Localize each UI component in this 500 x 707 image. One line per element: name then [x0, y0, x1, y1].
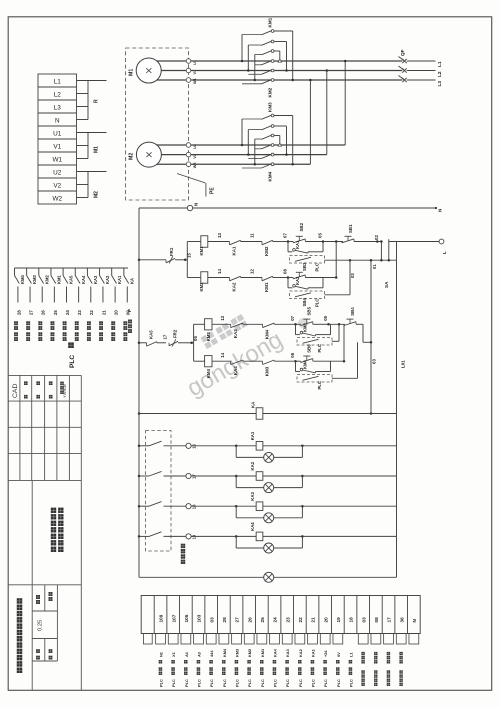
wire bottom return [139, 576, 397, 578]
svg-text:M1: M1 [94, 146, 100, 153]
wire right rail L01 [397, 242, 406, 578]
wire cable group R [77, 81, 107, 120]
circuit breaker QF [399, 49, 436, 82]
wire box2 output [325, 259, 355, 295]
svg-text:0V: 0V [336, 652, 341, 657]
svg-text:KM1: KM1 [199, 246, 204, 256]
svg-text:109: 109 [159, 614, 164, 622]
title block middle section [8, 480, 81, 690]
motor M1 [129, 58, 162, 83]
PLC interlock box 1 [290, 256, 325, 272]
svg-text:12: 12 [250, 269, 255, 274]
svg-text:PLC: PLC [311, 679, 316, 687]
svg-text:N: N [55, 117, 60, 124]
svg-text:KM2: KM2 [247, 648, 252, 657]
thermal relay FR2 contact [169, 329, 192, 346]
machine dashed enclosure [126, 48, 189, 200]
svg-text:V2: V2 [53, 182, 61, 189]
svg-text:20: 20 [323, 617, 328, 623]
wire phase lines motor1 to QF [191, 61, 402, 80]
svg-text:26: 26 [41, 310, 46, 315]
node 05c [323, 315, 330, 325]
signal name label [26, 321, 30, 341]
terminal block XT1 [38, 74, 77, 204]
svg-text:KA3: KA3 [285, 648, 290, 657]
svg-text:36: 36 [399, 617, 404, 623]
signal name label [99, 321, 103, 341]
svg-text:KA5: KA5 [149, 330, 154, 339]
svg-text:KA4: KA4 [81, 275, 86, 284]
svg-text:05: 05 [323, 315, 328, 320]
coil KM2 / contacts KA2 KM1 branch [187, 269, 289, 292]
coil KM1 / contacts KA1 KM2 branch [187, 233, 289, 256]
switch S2 [138, 471, 186, 477]
svg-text:107: 107 [171, 614, 176, 622]
svg-text:SB4: SB4 [350, 307, 355, 316]
lamp HL1 [236, 446, 302, 463]
company name [17, 598, 23, 673]
selector switch SA [372, 235, 390, 288]
svg-text:07: 07 [283, 233, 288, 238]
svg-text:444: 444 [209, 650, 214, 657]
svg-text:03: 03 [372, 359, 377, 364]
svg-text:11: 11 [250, 233, 255, 238]
switch S4 [138, 532, 186, 538]
node 00 [126, 310, 131, 315]
svg-text:KA2: KA2 [232, 282, 237, 291]
svg-text:PLC: PLC [209, 679, 214, 687]
PLC input contact KA4 [75, 268, 86, 303]
svg-text:W1: W1 [52, 156, 62, 163]
node 25 [53, 310, 58, 315]
svg-text:FR1: FR1 [169, 247, 174, 256]
pushbutton SB3 [288, 272, 336, 279]
svg-text:PLC: PLC [317, 344, 322, 352]
svg-text:02: 02 [374, 235, 379, 240]
signal name label [14, 321, 18, 341]
motor M2 [129, 142, 162, 167]
PLC input contact KM1 [51, 268, 62, 303]
relay coil KA4 [191, 522, 396, 541]
pushbutton SB2 [288, 222, 323, 243]
terminal strip stubs and output labels [143, 634, 418, 688]
signal name label [111, 321, 115, 341]
svg-text:25: 25 [53, 310, 58, 315]
svg-text:KM3: KM3 [32, 274, 37, 284]
contact KM3 parallel [296, 322, 331, 336]
svg-text:KM4: KM4 [222, 648, 227, 657]
title block lower cells [32, 585, 57, 661]
svg-text:28: 28 [222, 617, 227, 623]
PLC interlock box 2 [290, 291, 325, 307]
svg-text:PLC: PLC [298, 679, 303, 687]
svg-text:KA2: KA2 [298, 648, 303, 657]
svg-text:PLC: PLC [222, 679, 227, 687]
svg-text:13: 13 [220, 315, 225, 320]
svg-text:0.25: 0.25 [38, 620, 44, 631]
signal name label [75, 321, 79, 341]
wire top line to SB1 [323, 240, 343, 243]
svg-text:22: 22 [89, 310, 94, 315]
svg-text:KM3: KM3 [265, 366, 270, 376]
terminal strip XT2 [141, 596, 420, 634]
relay coil KA [138, 401, 397, 419]
svg-text:PLC: PLC [184, 679, 189, 687]
svg-text:KM2: KM2 [268, 87, 273, 97]
contact KA1 parallel [288, 240, 323, 253]
node 22 [89, 310, 94, 315]
svg-text:L1: L1 [437, 61, 443, 67]
signal name label [38, 321, 42, 341]
svg-text:FR2: FR2 [173, 329, 178, 338]
svg-text:PLC: PLC [197, 679, 202, 687]
svg-text:KA2: KA2 [250, 461, 255, 470]
svg-text:SB4: SB4 [302, 298, 307, 307]
pushbutton SB4 [344, 307, 363, 326]
svg-text:20: 20 [114, 310, 119, 315]
svg-text:+24: +24 [323, 650, 328, 657]
PE bonding switch [177, 174, 216, 197]
svg-text:SA: SA [384, 281, 389, 288]
svg-text:14: 14 [217, 269, 222, 274]
svg-text:01: 01 [372, 264, 377, 269]
PLC input contact KM3 [27, 268, 38, 303]
svg-text:KA3: KA3 [93, 275, 98, 284]
svg-text:KM1: KM1 [268, 17, 273, 27]
switch S3 [138, 502, 186, 508]
svg-text:M2: M2 [129, 153, 135, 160]
svg-text:26: 26 [247, 617, 252, 623]
svg-text:07: 07 [290, 315, 295, 320]
svg-text:24: 24 [65, 310, 70, 315]
svg-text:KA4: KA4 [250, 522, 255, 531]
node 27 [28, 310, 33, 315]
svg-text:KA1: KA1 [311, 648, 316, 657]
svg-text:PLC: PLC [349, 679, 354, 687]
svg-text:PLC: PLC [171, 679, 176, 687]
node 26 [41, 310, 46, 315]
switch S1 [138, 441, 186, 447]
svg-text:KM4: KM4 [265, 329, 270, 339]
svg-text:25: 25 [260, 617, 265, 623]
node P [127, 309, 132, 333]
node 05 [318, 233, 325, 243]
svg-text:PLC: PLC [69, 355, 76, 368]
svg-text:SB6: SB6 [307, 344, 312, 353]
svg-text:KM1: KM1 [260, 648, 265, 657]
PLC interlock box 4 [297, 375, 332, 390]
lamp HL4 [236, 536, 302, 553]
svg-text:U2: U2 [53, 169, 62, 176]
svg-text:A1: A1 [184, 651, 189, 657]
svg-text:03: 03 [361, 617, 366, 623]
svg-text:KM3: KM3 [268, 102, 273, 112]
label PLC input [68, 342, 76, 368]
svg-text:V1: V1 [53, 143, 61, 150]
wire branch split lower [192, 324, 194, 361]
svg-text:PLC: PLC [323, 679, 328, 687]
svg-text:L: L [442, 251, 447, 254]
svg-text:08: 08 [283, 269, 288, 274]
svg-text:08: 08 [374, 617, 379, 623]
wire cable group M2 [77, 172, 107, 199]
node 21 [101, 310, 106, 315]
svg-text:L3: L3 [54, 104, 62, 111]
svg-text:21: 21 [101, 310, 106, 315]
wire risers joining motor2 lines to phases [309, 60, 346, 164]
terminal 16 [186, 443, 197, 449]
svg-text:L01: L01 [401, 360, 406, 368]
svg-text:PLC: PLC [285, 679, 290, 687]
wire box4 output [332, 342, 358, 378]
svg-text:PLC: PLC [273, 679, 278, 687]
wire cable group M1 [77, 133, 107, 159]
svg-text:PLC: PLC [317, 381, 322, 389]
wire line2 [325, 259, 397, 261]
PLC input header wire [15, 267, 129, 269]
svg-text:03: 03 [350, 273, 355, 278]
svg-text:L2: L2 [54, 91, 62, 98]
node 20 [114, 310, 119, 315]
svg-text:W1: W1 [193, 78, 197, 84]
node 05b [190, 336, 197, 344]
svg-text:R: R [94, 99, 100, 103]
contactor KM3 contacts [241, 102, 294, 182]
svg-text:PLC: PLC [247, 679, 252, 687]
relay coil KA3 [191, 491, 396, 510]
svg-text:M1: M1 [129, 69, 135, 76]
svg-text:23: 23 [285, 617, 290, 623]
thermal relay FR1 contact [138, 247, 185, 263]
PLC input contact KM4 [15, 268, 26, 303]
node 24 [65, 310, 70, 315]
svg-text:KM4: KM4 [206, 369, 211, 379]
svg-text:L3: L3 [437, 81, 443, 87]
relay coil KA2 [191, 461, 396, 480]
svg-text:A3: A3 [197, 651, 202, 657]
svg-text:PLC: PLC [260, 679, 265, 687]
svg-text:17: 17 [163, 334, 168, 339]
svg-text:KA2: KA2 [295, 276, 300, 285]
signal name label [87, 321, 91, 341]
contact KM4 parallel [296, 359, 331, 372]
svg-text:21: 21 [311, 617, 316, 623]
terminal L [389, 239, 447, 254]
svg-text:03: 03 [209, 617, 214, 623]
svg-text:KA2: KA2 [105, 275, 110, 284]
pushbutton SB6 [296, 344, 345, 363]
pushbutton SB1 [342, 224, 381, 243]
lamp HL5 [264, 572, 274, 582]
svg-text:19: 19 [336, 617, 341, 623]
PLC input contact KA1 [112, 268, 123, 303]
contact KA2 parallel [288, 276, 323, 289]
svg-text:KM3: KM3 [235, 648, 240, 657]
svg-text:PLC: PLC [336, 679, 341, 687]
lamp HL3 [236, 506, 302, 523]
svg-text:KM2: KM2 [264, 246, 269, 256]
svg-text:SB1: SB1 [348, 224, 353, 233]
wire branch join 336 [335, 242, 338, 279]
signal name label [51, 321, 55, 341]
svg-text:KA: KA [129, 278, 134, 284]
PLC interlock box 3 [297, 338, 332, 353]
motor M2 leads U2 V2 W2 [157, 143, 197, 169]
svg-text:KA4: KA4 [233, 366, 238, 375]
pushbutton SB5 [296, 306, 329, 325]
svg-text:KA1: KA1 [295, 240, 300, 249]
svg-text:27: 27 [28, 310, 33, 315]
PLC input contact KA5 [63, 268, 74, 303]
svg-text:L1: L1 [54, 78, 62, 85]
contact KA5 [138, 330, 168, 346]
svg-text:KM4: KM4 [303, 359, 308, 369]
svg-text:24: 24 [273, 617, 278, 623]
svg-text:N1: N1 [159, 651, 164, 657]
title block upper table [8, 375, 81, 480]
svg-text:QF: QF [400, 49, 405, 56]
note label under switch box [181, 560, 185, 564]
svg-text:KM4: KM4 [268, 171, 273, 181]
svg-text:28: 28 [16, 310, 21, 315]
svg-text:KA3: KA3 [250, 491, 255, 500]
signal name label [63, 321, 67, 341]
svg-text:KA5: KA5 [69, 275, 74, 284]
node 23 [77, 310, 82, 315]
svg-text:KA: KA [251, 401, 256, 408]
svg-text:SB3: SB3 [302, 262, 307, 271]
svg-text:PLC: PLC [159, 679, 164, 687]
signal name label [123, 321, 127, 341]
svg-text:27: 27 [235, 617, 240, 623]
coil KM3 / contacts KA3 KM4 branch [194, 315, 297, 341]
terminal 19 [186, 534, 197, 540]
svg-text:KM2: KM2 [199, 282, 204, 292]
svg-text:L2: L2 [437, 71, 443, 77]
wire join lower top [329, 323, 346, 341]
svg-text:103: 103 [197, 614, 202, 622]
PLC input contact KA2 [100, 268, 111, 303]
terminal 17 [186, 473, 197, 479]
svg-text:KM2: KM2 [44, 274, 49, 284]
svg-text:23: 23 [77, 310, 82, 315]
svg-text:KA1: KA1 [117, 275, 122, 284]
terminal 18 [186, 504, 197, 510]
relay coil KA1 [191, 431, 396, 450]
svg-text:M2: M2 [94, 191, 100, 198]
svg-text:X1: X1 [171, 651, 176, 657]
wire node 03 riser [370, 259, 377, 415]
svg-text:14: 14 [220, 352, 225, 357]
svg-text:PE: PE [210, 187, 216, 194]
svg-text:22: 22 [298, 617, 303, 623]
PLC input contact KA [124, 268, 135, 303]
watermark [183, 314, 309, 402]
wire SB4 down [363, 324, 372, 343]
svg-text:105: 105 [184, 614, 189, 622]
svg-text:KM4: KM4 [20, 274, 25, 284]
svg-text:KA4: KA4 [273, 648, 278, 657]
motor M1 leads U1 V1 W1 [157, 59, 197, 84]
node 28 [16, 310, 21, 315]
svg-text:PLC: PLC [315, 263, 320, 271]
coil KM4 / contacts KA4 KM3 branch [194, 352, 297, 378]
svg-text:PLC: PLC [315, 299, 320, 307]
wire phase lines motor2 [191, 145, 345, 164]
svg-text:W2: W2 [52, 195, 62, 202]
wire left rail [138, 208, 140, 577]
svg-text:17: 17 [387, 617, 392, 623]
svg-text:13: 13 [217, 233, 222, 238]
svg-text:CAD: CAD [12, 384, 19, 398]
svg-text:KA1: KA1 [250, 431, 255, 440]
svg-text:W2: W2 [193, 162, 197, 168]
svg-text:05: 05 [318, 233, 323, 238]
svg-text:KA1: KA1 [232, 246, 237, 255]
svg-text:P: P [127, 309, 132, 312]
svg-text:PLC: PLC [235, 679, 240, 687]
wire branch split [185, 242, 187, 278]
contactor KM1 contacts [241, 17, 294, 97]
svg-text:U1: U1 [53, 130, 62, 137]
svg-text:KA3: KA3 [233, 329, 238, 338]
node 15 [184, 253, 192, 261]
svg-text:SB5: SB5 [307, 306, 312, 315]
PLC input contact KM2 [39, 268, 50, 303]
svg-text:KM3: KM3 [303, 322, 308, 332]
svg-text:KM3: KM3 [206, 332, 211, 342]
svg-text:KM1: KM1 [264, 282, 269, 292]
svg-text:06: 06 [290, 352, 295, 357]
wire join 344 [343, 324, 346, 362]
lamp HL2 [236, 476, 302, 493]
dashed switch enclosure [146, 431, 172, 552]
svg-text:18: 18 [349, 617, 354, 623]
svg-text:SB2: SB2 [299, 222, 304, 231]
PLC input contact KA3 [87, 268, 98, 303]
wire N [139, 202, 443, 212]
svg-text:KM1: KM1 [56, 274, 61, 284]
